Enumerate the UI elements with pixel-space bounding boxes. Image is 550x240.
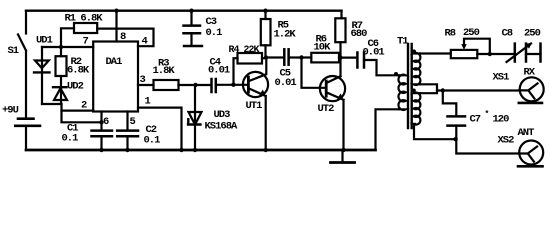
capacitor C7 <box>448 115 466 118</box>
wire battery to bottom rail <box>25 127 27 150</box>
transistor VT1 <box>243 72 268 97</box>
svg-text:ANT: ANT <box>518 127 535 139</box>
svg-text:0.01: 0.01 <box>275 77 297 89</box>
resistor R1 <box>74 23 97 33</box>
svg-text:10K: 10K <box>314 42 332 54</box>
node dot pin1/rail <box>179 148 183 152</box>
wire upper secondary bottom tap <box>420 84 437 93</box>
wire T1 primary bottom to rail <box>376 109 400 150</box>
wire jog to C7 <box>443 91 457 116</box>
node dot VT1 collector <box>264 55 268 59</box>
node dot C2/rail <box>125 148 129 152</box>
svg-text:250: 250 <box>463 27 480 39</box>
wire left drop to switch <box>25 11 27 34</box>
wire pin2 stub <box>62 109 94 111</box>
resistor R7 <box>340 11 342 19</box>
wire C4 to VT1 base <box>216 84 249 86</box>
svg-text:6: 6 <box>103 116 109 128</box>
ground bar under C3 <box>184 45 202 47</box>
wire pin6 drop <box>100 112 102 131</box>
svg-text:C7: C7 <box>470 114 481 126</box>
connector XS1 <box>520 77 544 101</box>
wire bottom rail <box>26 149 376 152</box>
node dot C7 top <box>441 88 445 92</box>
capacitor C1 <box>92 129 113 132</box>
node dot R4 lead <box>231 83 235 87</box>
resistor R4 <box>238 53 263 64</box>
svg-text:R1 6.8K: R1 6.8K <box>65 13 104 25</box>
wire pin8 riser <box>115 11 117 42</box>
capacitor C2 <box>117 129 138 132</box>
wire tap to XS1 <box>437 89 519 91</box>
svg-text:XS2: XS2 <box>498 135 515 147</box>
wire top rail <box>26 9 342 11</box>
svg-text:T1: T1 <box>397 36 408 48</box>
svg-text:DA1: DA1 <box>106 56 123 68</box>
ground symbol <box>341 150 343 162</box>
svg-text:0.1: 0.1 <box>62 133 79 145</box>
wire upper secondary top to R8 <box>420 52 451 54</box>
capacitor C6 <box>356 53 359 68</box>
wire pin3 stub <box>138 84 154 86</box>
wire R3 to C4 <box>179 84 212 86</box>
potentiometer R8 <box>451 50 478 58</box>
op-amp IC DA1 <box>93 42 138 112</box>
svg-text:7: 7 <box>83 36 89 48</box>
svg-text:0.01: 0.01 <box>208 64 230 76</box>
wire R6 right <box>339 56 357 58</box>
svg-text:1: 1 <box>145 96 151 108</box>
transformer T1 primary winding <box>398 75 405 110</box>
svg-text:R8: R8 <box>445 28 456 40</box>
svg-text:RX: RX <box>524 67 536 79</box>
svg-text:0.1: 0.1 <box>144 135 161 147</box>
resistor R5 <box>264 11 266 19</box>
transformer T1 upper secondary <box>414 53 421 85</box>
node dot C7 bottom <box>453 137 457 141</box>
svg-text:UD3: UD3 <box>214 109 231 121</box>
svg-text:*: * <box>485 110 490 119</box>
wire to XS2 <box>456 139 537 161</box>
svg-text:UT1: UT1 <box>246 100 263 112</box>
svg-text:KS168A: KS168A <box>205 121 239 133</box>
svg-text:0.1: 0.1 <box>206 27 223 39</box>
node dot R3/VD3 <box>193 83 197 87</box>
node dot R7/VT2 collector <box>338 55 342 59</box>
transformer T1 core <box>407 44 409 128</box>
wire pin1 to ground <box>138 108 182 150</box>
wire C5 to VT2 base <box>302 58 327 88</box>
svg-text:UD1: UD1 <box>36 35 53 47</box>
node dot C1/pin6 <box>99 120 103 124</box>
svg-text:R4 22K: R4 22K <box>229 44 261 56</box>
node dot C1/rail <box>99 148 103 152</box>
diode VD2 <box>60 76 62 104</box>
diode VD1 <box>41 47 43 61</box>
svg-text:8: 8 <box>120 31 126 43</box>
capacitor C4 <box>210 79 213 92</box>
resistor R6 <box>311 53 339 63</box>
svg-text:1.8K: 1.8K <box>153 65 176 77</box>
transformer T1 lower secondary <box>414 93 421 125</box>
wire R1 right to pin4 riser <box>97 29 153 47</box>
battery GB1 +9V plates <box>18 117 34 120</box>
svg-text:UT2: UT2 <box>318 103 335 115</box>
connector XS2 <box>519 141 543 165</box>
wire lower secondary bottom <box>414 124 456 139</box>
svg-text:XS1: XS1 <box>493 72 510 84</box>
node dot rail/pin8 <box>114 9 118 13</box>
transistor VT2 <box>320 76 345 101</box>
node dot R1/R2/VD1 <box>59 45 63 49</box>
svg-text:S1: S1 <box>8 45 19 57</box>
wire pin5 drop <box>126 112 128 131</box>
resistor R2 <box>60 47 62 56</box>
svg-text:6.8K: 6.8K <box>67 64 90 76</box>
svg-text:2: 2 <box>81 100 87 112</box>
variable capacitor C8 <box>514 44 517 62</box>
capacitor C3 <box>190 11 192 26</box>
svg-text:4: 4 <box>142 35 148 47</box>
svg-text:0.01: 0.01 <box>363 47 385 59</box>
wire node pin7 (VD1/R2/R1 to DA1 pin 7) <box>42 46 93 48</box>
svg-text:1.2K: 1.2K <box>274 29 297 41</box>
svg-text:UD2: UD2 <box>67 80 84 92</box>
svg-text:5: 5 <box>130 116 136 128</box>
zener diode VD3 <box>194 85 196 125</box>
wire C6 to T1 primary <box>364 60 399 75</box>
svg-text:C8: C8 <box>502 28 513 40</box>
switch S1 <box>18 35 26 51</box>
svg-text:3: 3 <box>140 74 146 86</box>
node dot C5/R6/VT2 base <box>299 55 303 59</box>
svg-text:250: 250 <box>524 28 541 40</box>
wire switch to battery <box>25 51 27 118</box>
wire R1 left lead <box>61 28 74 47</box>
wire jog down to C1 link <box>62 104 102 122</box>
wire VD1/VD2 bottom link <box>42 103 62 105</box>
svg-text:680: 680 <box>351 28 368 40</box>
svg-text:+9U: +9U <box>2 105 19 117</box>
svg-text:120: 120 <box>493 114 510 126</box>
capacitor C5 <box>266 56 284 58</box>
resistor R3 <box>154 80 179 90</box>
node dot T1 primary <box>394 72 398 76</box>
